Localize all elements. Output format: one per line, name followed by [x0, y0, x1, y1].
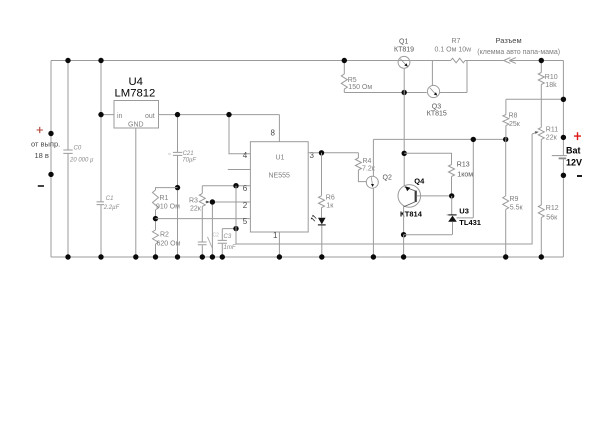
pin number 8: [271, 128, 276, 137]
terminal + (from rectifier): [31, 127, 60, 160]
svg-text:C21: C21: [183, 151, 194, 157]
resistor R13: [404, 153, 473, 196]
svg-text:70µF: 70µF: [182, 157, 196, 163]
svg-text:R9: R9: [510, 196, 519, 203]
wire U4 GND to ground: [135, 128, 137, 257]
node pin4 tap on out rail: [226, 112, 231, 117]
svg-text:C3: C3: [224, 234, 232, 240]
node battery top junction: [561, 97, 566, 102]
node divider mid: [153, 216, 158, 221]
node C21 bottom: [175, 254, 180, 259]
svg-text:18 в: 18 в: [35, 151, 49, 160]
svg-text:18k: 18k: [545, 82, 557, 89]
node LED branch tap: [319, 150, 324, 155]
resistor R10: [538, 61, 557, 128]
node battery minus: [561, 173, 566, 178]
svg-text:22к: 22к: [546, 134, 558, 141]
svg-text:R2: R2: [160, 232, 169, 239]
resistor R11 trimmer: [532, 127, 558, 142]
wire Q4 emitter riser: [403, 93, 405, 187]
node R5 top: [342, 58, 347, 63]
svg-text:4: 4: [243, 151, 248, 160]
wire bottom ground bus: [51, 256, 563, 258]
svg-text:5.5к: 5.5к: [510, 205, 524, 212]
resistor R7: [435, 38, 473, 63]
svg-text:R6: R6: [326, 195, 335, 202]
wire 555 pin4: [229, 115, 250, 154]
svg-text:R5: R5: [348, 77, 357, 84]
svg-text:in: in: [117, 113, 123, 120]
svg-text:NE555: NE555: [269, 173, 291, 180]
svg-text:5: 5: [243, 217, 248, 226]
resistor R5: [341, 61, 372, 93]
svg-text:2.2µF: 2.2µF: [103, 205, 120, 211]
wire Q4 base: [417, 195, 452, 197]
resistor R1: [153, 188, 181, 211]
wire Q2 collector feedback line: [373, 138, 505, 140]
node pin1 bottom: [277, 254, 282, 259]
svg-text:R13: R13: [457, 162, 470, 169]
svg-text:Q1: Q1: [399, 38, 408, 45]
svg-text:КТ819: КТ819: [394, 47, 414, 54]
svg-text:GND: GND: [128, 122, 144, 129]
wire 555 pin6: [202, 185, 250, 187]
node R9 bottom: [503, 254, 508, 259]
node ref top: [471, 137, 476, 142]
svg-text:U3: U3: [459, 207, 469, 216]
node battery plus: [561, 135, 566, 140]
wire 555 pin8: [278, 115, 280, 142]
svg-text:U4: U4: [129, 76, 143, 88]
transistor Q1: [394, 38, 414, 68]
svg-text:R1: R1: [160, 195, 169, 202]
node Q4 collector bottom: [401, 254, 406, 259]
svg-text:КТ815: КТ815: [427, 110, 447, 117]
svg-text:C2: C2: [213, 233, 220, 239]
node R10 top: [539, 58, 544, 63]
wire LM7812 input branch: [101, 61, 114, 258]
svg-text:от выпр.: от выпр.: [31, 140, 60, 149]
node LED bottom: [319, 254, 324, 259]
svg-text:out: out: [145, 113, 155, 120]
node C1 bottom: [98, 254, 103, 259]
svg-text:1к: 1к: [326, 202, 334, 209]
capacitor C1: [97, 196, 120, 211]
node pin2 bottom: [210, 254, 215, 259]
svg-text:(клемма авто папа-мама): (клемма авто папа-мама): [477, 49, 560, 56]
svg-text:12V: 12V: [566, 158, 582, 168]
pin number 2: [243, 201, 248, 210]
svg-text:6: 6: [243, 184, 248, 193]
node pin6 tap: [233, 183, 238, 188]
wire left vertical input bus: [50, 61, 52, 258]
node Q4 collector junction: [401, 232, 406, 237]
led D1: [311, 215, 326, 257]
node R1 tap: [175, 185, 180, 190]
resistor R12: [538, 139, 558, 257]
capacitor C0: [63, 61, 94, 258]
wire Q2 collector: [372, 139, 374, 176]
pin number 1: [273, 231, 278, 240]
wire Q1 base line: [344, 92, 426, 94]
node R12 bottom: [539, 254, 544, 259]
node Q4 emitter tap: [402, 151, 407, 156]
node C3 bottom: [220, 254, 225, 259]
node C3 top junction: [233, 226, 238, 231]
node C21 top: [175, 112, 180, 117]
svg-text:R10: R10: [545, 74, 558, 81]
node in pin: [98, 112, 103, 117]
wire Q2 emitter: [372, 188, 374, 257]
svg-text:LM7812: LM7812: [115, 88, 156, 100]
battery Bat 12V: [552, 146, 582, 168]
capacitor C3: [218, 229, 236, 257]
wire U4 out rail: [159, 114, 280, 116]
node Q2 emitter bottom: [371, 254, 376, 259]
svg-text:Разъем: Разъем: [496, 36, 522, 45]
wire Q1 emitter drop: [403, 68, 405, 92]
node rail x=101: [98, 58, 103, 63]
node Q1 emitter junction: [402, 90, 407, 95]
transistor Q2: [366, 175, 392, 189]
node R2 bottom: [153, 254, 158, 259]
pin number 3: [310, 151, 315, 160]
wire Q4 collector: [403, 206, 405, 235]
node C0 bottom: [65, 254, 70, 259]
capacitor C21: [168, 115, 196, 257]
svg-text:Q4: Q4: [414, 177, 425, 186]
svg-text:Bat: Bat: [566, 146, 581, 156]
wire 555 pin7 stub: [228, 169, 251, 171]
timer U1 NE555: [250, 142, 308, 232]
wire right vertical battery bus: [562, 61, 564, 258]
resistor R6: [319, 153, 335, 218]
pin number 5: [243, 217, 248, 226]
wire 555 pin3 output: [308, 152, 358, 154]
svg-text:620 Ом: 620 Ом: [157, 241, 181, 248]
wire pin6 to feedback: [236, 134, 532, 244]
node C0 top: [65, 58, 70, 63]
wire TL431 anode to Q4 collector: [404, 234, 453, 236]
svg-text:R3: R3: [189, 198, 198, 205]
svg-text:Q2: Q2: [383, 175, 392, 182]
wire 555 pin5: [156, 218, 251, 220]
svg-text:R4: R4: [363, 158, 372, 165]
svg-text:0.1 Ом 10w: 0.1 Ом 10w: [435, 47, 473, 54]
resistor R8: [503, 99, 521, 139]
svg-text:56к: 56к: [546, 215, 558, 222]
wire Q3 emitter right: [440, 61, 467, 93]
svg-text:1mF: 1mF: [224, 245, 236, 251]
shunt regulator U3 TL431: [447, 196, 481, 235]
wire R1 to node: [155, 210, 157, 230]
svg-text:25к: 25к: [509, 121, 521, 128]
pin number 4: [243, 151, 248, 160]
node input plus: [48, 131, 53, 136]
transistor Q3: [427, 85, 447, 117]
resistor R4: [355, 153, 375, 182]
node input minus: [48, 172, 53, 177]
svg-text:TL431: TL431: [459, 218, 481, 227]
wire collector to ground: [403, 235, 405, 257]
svg-text:R7: R7: [452, 38, 461, 45]
terminal - (from rectifier): [38, 185, 44, 187]
svg-text:R12: R12: [546, 205, 559, 212]
node pin2: [210, 199, 215, 204]
terminal battery +: [574, 132, 581, 140]
node R3 bottom: [200, 254, 205, 259]
svg-text:R8: R8: [509, 113, 518, 120]
wire 555 pin2 branch: [212, 202, 250, 257]
svg-text:8: 8: [271, 128, 276, 137]
wire TL431 ref: [457, 139, 474, 218]
resistor R2: [153, 230, 181, 257]
svg-text:U1: U1: [276, 155, 285, 162]
svg-text:150 Ом: 150 Ом: [348, 84, 372, 91]
connector (razyem): [477, 36, 560, 63]
svg-text:C1: C1: [106, 196, 114, 202]
terminal battery -: [577, 175, 582, 177]
resistor R3 trimmer: [189, 186, 210, 242]
svg-text:20 000 µ: 20 000 µ: [69, 158, 94, 164]
node R8 bottom junction: [503, 137, 508, 142]
svg-text:3: 3: [310, 151, 315, 160]
wire top rail: [51, 60, 563, 62]
capacitor C2 trimmer: [198, 233, 219, 258]
wire 555 pin1: [278, 232, 280, 257]
node R13 bottom / Q4 base / U3 top: [449, 193, 454, 198]
svg-text:1ком: 1ком: [457, 171, 473, 178]
node U4 gnd bottom: [133, 254, 138, 259]
wire R8 top to battery plus: [506, 98, 564, 100]
svg-text:C0: C0: [74, 146, 82, 152]
resistor R9: [503, 139, 524, 257]
pin number 6: [243, 184, 248, 193]
regulator U4 LM7812: [114, 76, 159, 129]
svg-text:1: 1: [273, 231, 278, 240]
svg-text:910 Ом: 910 Ом: [156, 204, 180, 211]
svg-text:22к: 22к: [190, 206, 202, 213]
svg-text:R11: R11: [546, 127, 558, 134]
svg-text:2: 2: [243, 201, 248, 210]
wire Q3 collector up: [431, 61, 433, 86]
transistor Q4: [398, 177, 425, 219]
